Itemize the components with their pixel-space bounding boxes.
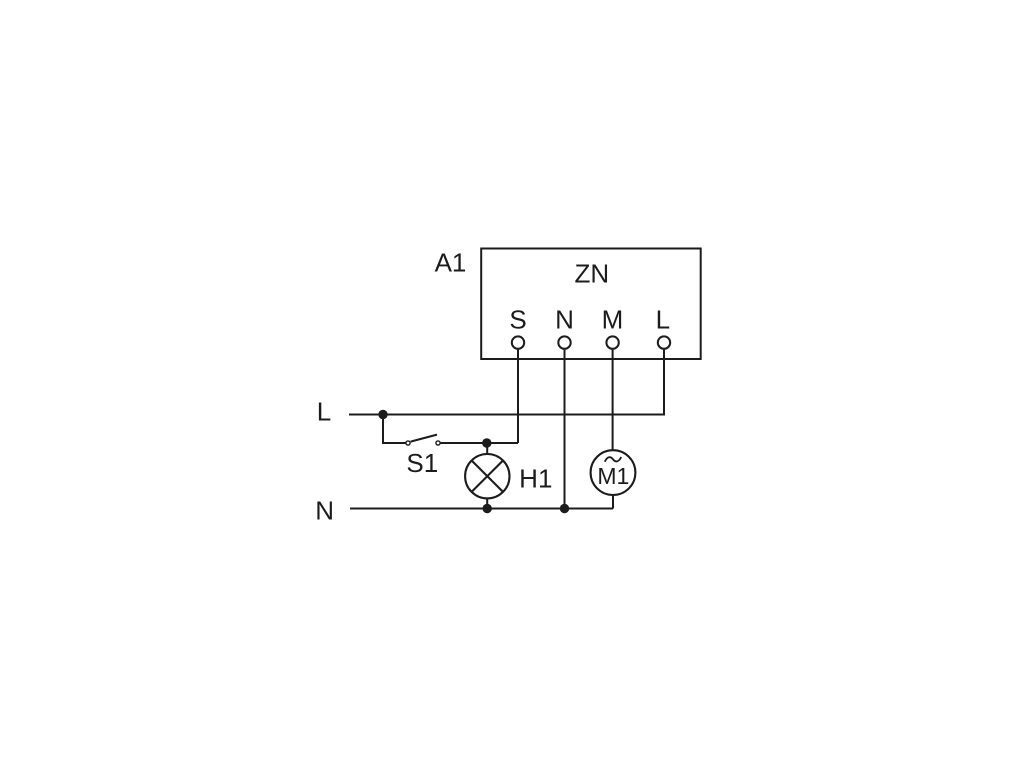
motor M1 bbox=[591, 450, 636, 495]
wire: terminal L down to line L bbox=[663, 350, 665, 416]
wire: node L down and over to switch S1 bbox=[383, 415, 406, 444]
wire: terminal S down to switch node bbox=[517, 350, 519, 443]
svg-text:L: L bbox=[317, 397, 331, 427]
device box A1 (ZN unit) bbox=[481, 249, 701, 360]
junction: lamp H1 on line N bbox=[483, 504, 492, 513]
svg-text:M: M bbox=[602, 305, 624, 335]
svg-text:M1: M1 bbox=[597, 463, 629, 489]
wire: terminal M down to motor M1 bbox=[612, 350, 614, 450]
svg-text:S1: S1 bbox=[406, 448, 438, 478]
svg-text:N: N bbox=[555, 305, 574, 335]
wire: switch S1 to terminal S drop bbox=[440, 442, 518, 444]
wire: line L horizontal bbox=[349, 414, 664, 416]
wire: line N horizontal bbox=[350, 508, 613, 510]
switch S1 right contact bbox=[436, 441, 440, 445]
svg-text:H1: H1 bbox=[519, 464, 552, 494]
wire: line N up to motor M1 bbox=[612, 496, 614, 509]
wire: terminal N down to line N bbox=[564, 350, 566, 509]
junction: lamp node on switch wire bbox=[482, 438, 491, 447]
terminal M bbox=[606, 336, 618, 348]
svg-text:N: N bbox=[315, 496, 334, 526]
lamp H1 bbox=[465, 454, 509, 498]
junction: terminal N on line N bbox=[560, 504, 569, 513]
terminal N bbox=[558, 336, 570, 348]
terminal S bbox=[512, 336, 524, 348]
switch S1 blade bbox=[411, 435, 437, 442]
terminal L bbox=[658, 336, 670, 348]
junction: node on line L bbox=[378, 410, 387, 419]
svg-text:S: S bbox=[509, 305, 526, 335]
svg-text:A1: A1 bbox=[435, 248, 467, 278]
wire: lamp node down to lamp H1 bbox=[486, 443, 488, 455]
svg-text:ZN: ZN bbox=[574, 259, 609, 289]
switch S1 left contact bbox=[406, 441, 410, 445]
svg-text:L: L bbox=[656, 305, 670, 335]
wire: lamp H1 down to line N bbox=[486, 499, 488, 509]
